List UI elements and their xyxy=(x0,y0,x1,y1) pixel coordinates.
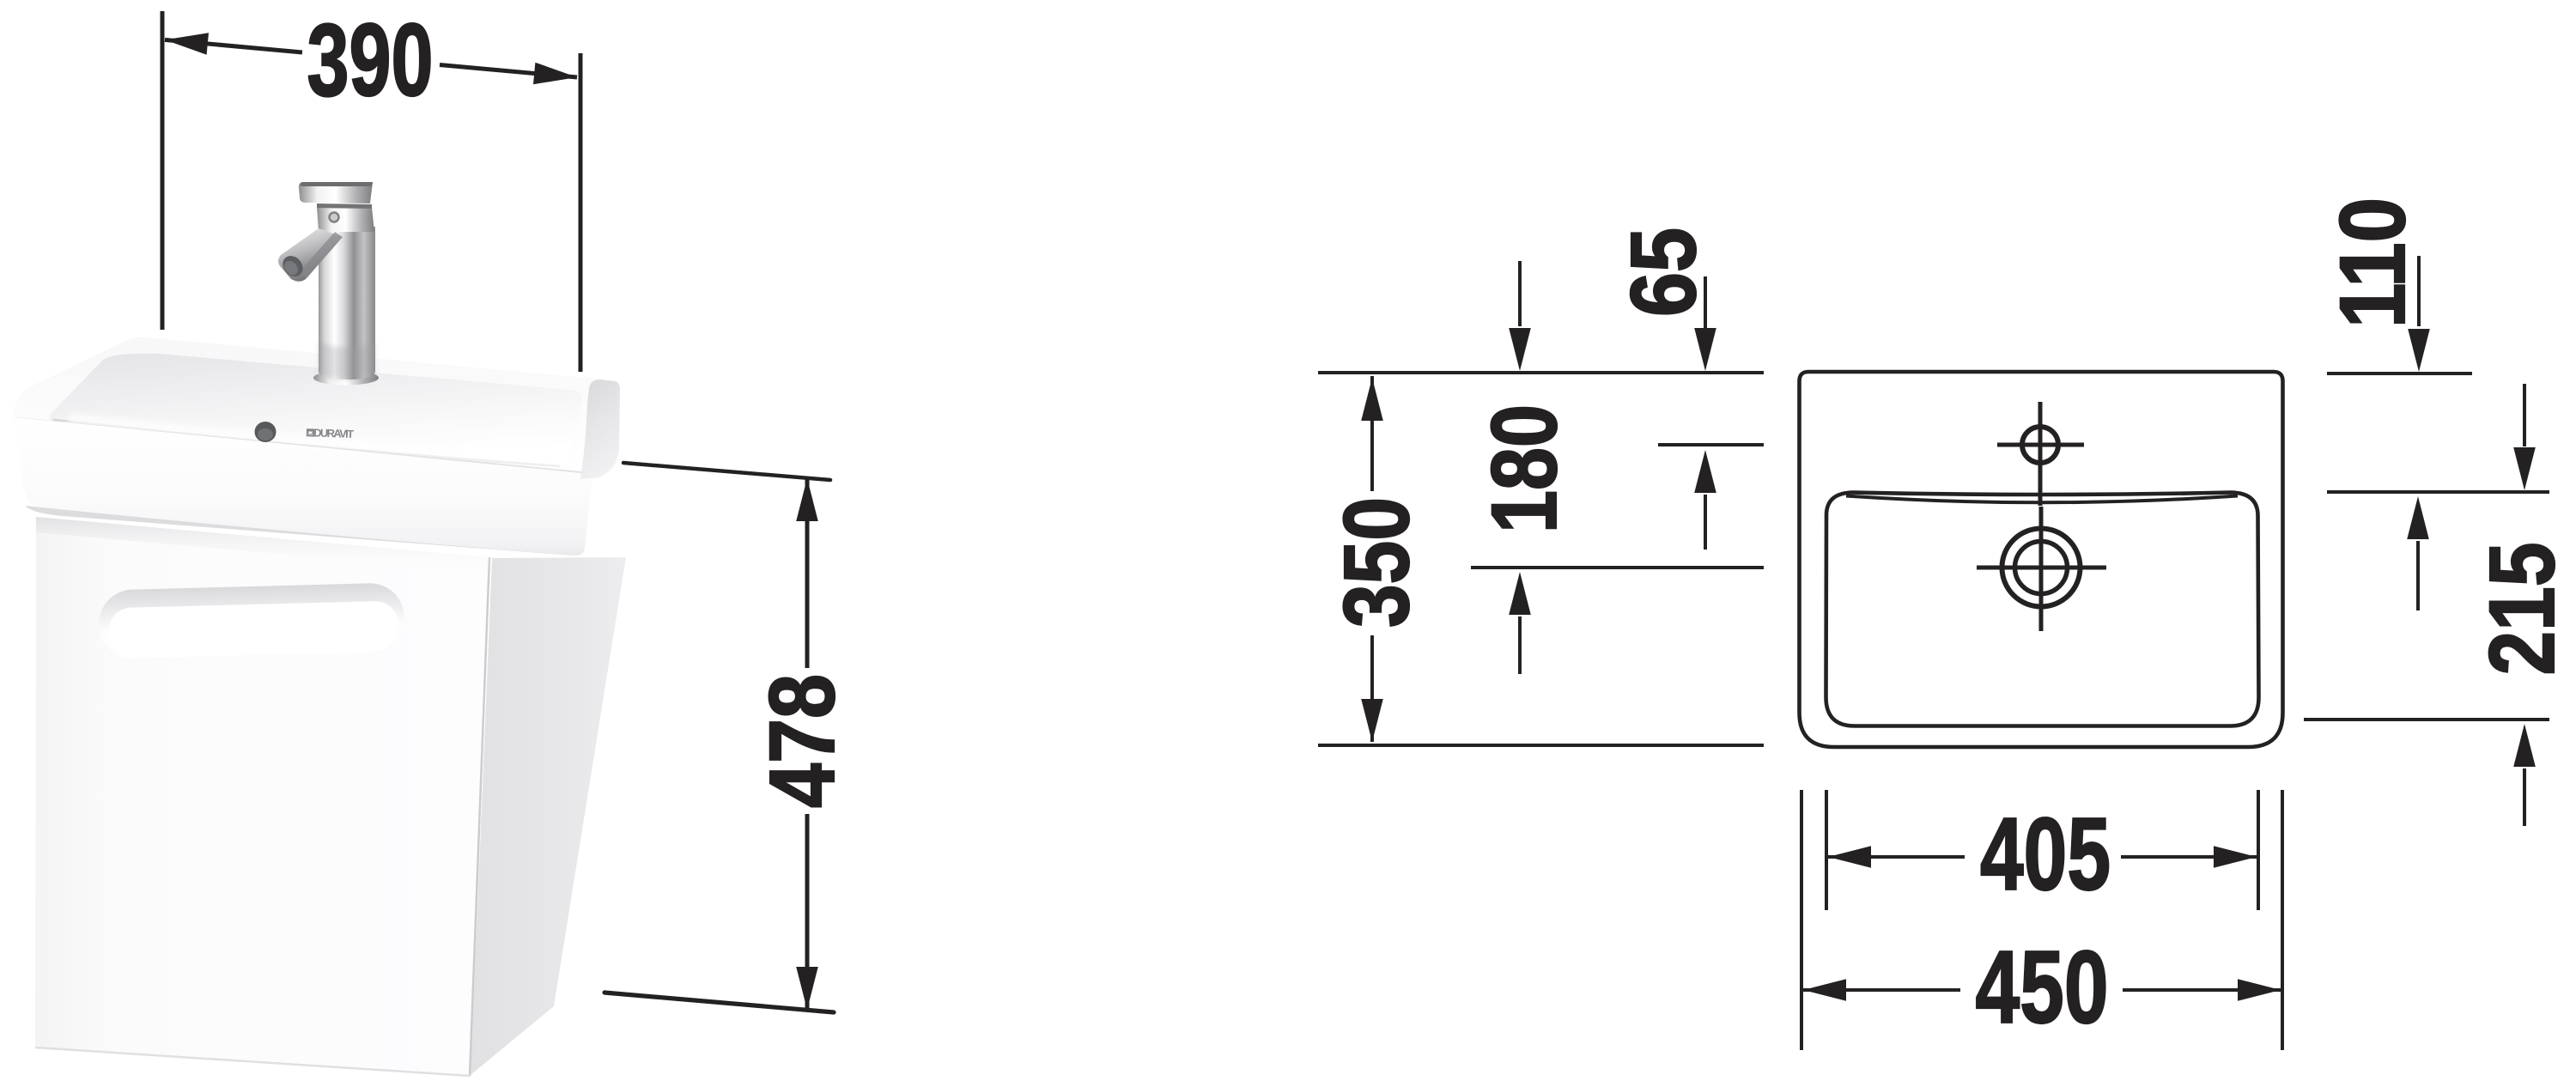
dim 405 line right segment xyxy=(2121,855,2257,859)
ref line faucet level (y=518) xyxy=(1658,443,1764,446)
inner bowl front wall highlight xyxy=(65,413,571,471)
cabinet door bottom edge xyxy=(35,1048,470,1076)
basin outer outline xyxy=(1800,372,2283,747)
svg-text:405: 405 xyxy=(1980,797,2111,912)
cabinet right side panel xyxy=(471,557,626,1075)
basin inner bowl outline xyxy=(1826,493,2259,726)
faucet spout aerator xyxy=(278,252,307,280)
basin inner bowl front rim curve xyxy=(1846,496,2238,503)
faucet hole crosshair horizontal xyxy=(1997,443,2084,447)
door handle recess xyxy=(98,582,405,659)
svg-text:215: 215 xyxy=(2470,543,2573,676)
washbasin top deck xyxy=(14,337,617,475)
cabinet door/panel gap line xyxy=(470,557,489,1076)
dim 65 upper arrow xyxy=(1704,276,1707,331)
drain crosshair vertical xyxy=(2039,507,2044,631)
faucet lever top edge xyxy=(301,182,373,186)
dim 390 dimension line right segment xyxy=(440,65,577,78)
svg-text:65: 65 xyxy=(1611,228,1715,317)
dim 478 dimension line lower segment xyxy=(805,814,810,1010)
ref line bottom (y=868) xyxy=(1318,744,1764,747)
dim 478 top reference line xyxy=(623,463,830,480)
overflow hole xyxy=(255,422,276,442)
washbasin front bottom edge shade xyxy=(25,506,573,556)
faucet head seam xyxy=(317,203,372,209)
dim 478 dimension line upper segment xyxy=(805,478,810,668)
ref line drain level (y=661) xyxy=(1471,566,1764,569)
dim 180 lower arrow xyxy=(1518,616,1522,674)
dim 65 lower arrow xyxy=(1704,495,1707,550)
faucet spout underside shade xyxy=(299,232,343,278)
svg-text:110: 110 xyxy=(2320,197,2424,328)
dim 215 upper arrow xyxy=(2523,384,2526,446)
dim 390 right extension line xyxy=(579,53,583,372)
washbasin right side face xyxy=(580,380,620,479)
ext line 405 right xyxy=(2257,790,2260,910)
svg-text:⛾DURAVIT: ⛾DURAVIT xyxy=(306,426,355,440)
ext line 450 right xyxy=(2281,790,2284,1050)
faucet head dot xyxy=(330,213,339,222)
ref line right top (y=435) xyxy=(2327,372,2472,375)
faucet base escutcheon xyxy=(313,371,379,386)
dim 110 lower arrow xyxy=(2416,541,2420,610)
cabinet door front face xyxy=(35,517,489,1076)
washbasin inner bowl xyxy=(50,354,582,471)
faucet head block xyxy=(317,207,374,232)
dim 110 upper arrow xyxy=(2417,256,2421,326)
ref line right inner-basin bottom (y=838) xyxy=(2304,718,2549,721)
faucet body cylinder xyxy=(319,227,375,380)
faucet hole circle xyxy=(2022,427,2058,463)
svg-text:350: 350 xyxy=(1324,497,1428,628)
svg-text:450: 450 xyxy=(1976,930,2109,1045)
faucet spout xyxy=(278,228,343,282)
faucet hole crosshair vertical xyxy=(2038,402,2043,506)
deck front edge line xyxy=(15,418,597,474)
drain crosshair horizontal xyxy=(1977,566,2106,570)
dim 450 line left segment xyxy=(1803,988,1960,992)
shadow under washbasin on cabinet xyxy=(36,517,489,573)
ext line 450 left xyxy=(1800,790,1803,1050)
dim 390 dimension line left segment xyxy=(165,39,302,52)
dim 350 line lower segment xyxy=(1370,635,1374,742)
ref line top (y=434) xyxy=(1318,371,1764,374)
svg-text:390: 390 xyxy=(307,3,434,118)
dim 180 upper arrow xyxy=(1518,261,1522,326)
dim 215 lower arrow xyxy=(2523,768,2526,826)
drain outer circle xyxy=(2002,529,2081,607)
drain inner circle xyxy=(2015,542,2068,594)
dim 450 line right segment xyxy=(2123,988,2281,992)
dim 478 bottom reference (ground) line xyxy=(605,993,834,1012)
svg-text:478: 478 xyxy=(750,674,854,808)
dim 405 line left segment xyxy=(1828,855,1965,859)
washbasin ceramic body silhouette xyxy=(15,337,620,556)
faucet body lower sheen xyxy=(319,342,375,380)
svg-text:180: 180 xyxy=(1472,404,1576,533)
inner bowl front rim lip line xyxy=(53,420,560,466)
dim 350 line upper segment xyxy=(1370,376,1374,491)
dim 390 left extension line xyxy=(161,11,165,330)
ref line right inner-basin top (y=573) xyxy=(2327,490,2549,494)
faucet lever handle xyxy=(299,182,373,203)
washbasin front face xyxy=(14,417,598,556)
ext line 405 left xyxy=(1825,790,1828,910)
